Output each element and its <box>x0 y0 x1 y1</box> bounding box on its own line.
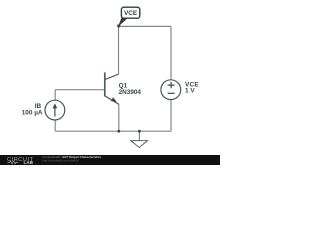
net label VCE (flag) <box>117 7 140 27</box>
wire: current source bottom lead <box>54 120 56 131</box>
wire: ground stub <box>138 131 140 140</box>
svg-text:VCE: VCE <box>124 10 138 17</box>
ground <box>131 141 148 148</box>
wire: base wire from current source to Q1 base <box>55 89 104 91</box>
svg-text:2N3904: 2N3904 <box>119 89 142 96</box>
wire: collector drop from top rail to Q1 collector <box>118 26 120 74</box>
wire: top rail from node VCE corner to voltage source top <box>118 25 171 27</box>
svg-text:100 µA: 100 µA <box>22 110 43 117</box>
wire: voltage source bottom lead <box>170 100 172 132</box>
junction: emitter on bottom rail <box>117 130 120 133</box>
wire: bottom rail <box>55 130 171 132</box>
wire: emitter drop from Q1 emitter to bottom rail <box>118 104 120 131</box>
junction: ground stub on bottom rail <box>138 130 141 133</box>
transistor Q1 2N3904 <box>105 72 119 104</box>
voltage source VCE (V1) <box>161 80 181 100</box>
svg-text:http://circuitlab.com/c6q42k: http://circuitlab.com/c6q42k <box>42 159 79 163</box>
svg-text:LAB: LAB <box>24 160 34 165</box>
current source IB <box>45 100 65 120</box>
wire: voltage source top lead <box>170 26 172 80</box>
footer logo CIRCUIT LAB <box>7 157 34 165</box>
svg-text:1 V: 1 V <box>185 88 195 95</box>
wire: current source top lead <box>54 90 56 101</box>
footer bar <box>0 155 220 165</box>
